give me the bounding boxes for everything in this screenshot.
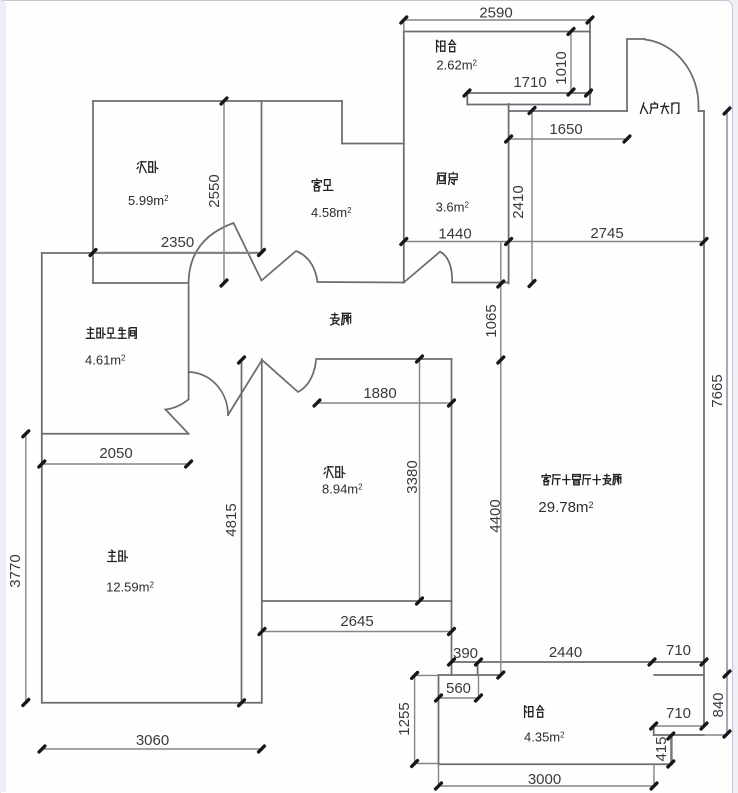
svg-text:1650: 1650: [549, 121, 582, 138]
entry door swing arc: [645, 40, 699, 107]
svg-text:560: 560: [446, 680, 471, 697]
extension for 2590 dim: [403, 20, 405, 32]
svg-text:2590: 2590: [479, 5, 512, 22]
dim 2350: [93, 252, 262, 254]
bedroom1 west wall: [92, 101, 94, 283]
bedroom2 east wall: [451, 359, 453, 675]
master bath east wall: [188, 285, 190, 399]
master bedroom door break: [166, 399, 189, 434]
dim 7665+840: [726, 111, 728, 734]
dim 2590: [404, 19, 590, 21]
extension to 840 dim: [704, 734, 727, 736]
dim 3380: [419, 359, 421, 601]
dim 2410: [531, 111, 533, 284]
dim 2550: [223, 101, 225, 283]
corridor north wall: [318, 281, 404, 284]
svg-text:840: 840: [710, 692, 727, 717]
dim 710 lower: [654, 725, 704, 727]
svg-text:390: 390: [453, 645, 478, 662]
master bedroom north wall: [42, 433, 189, 435]
extension for 1255 dim top: [415, 674, 439, 676]
kitchen south wall: [452, 282, 508, 284]
extension for 1255 dim bottom: [415, 763, 439, 765]
svg-text:1255: 1255: [396, 702, 413, 735]
south wall step: [477, 662, 479, 675]
bedroom1 south wall / master bath north wall: [42, 252, 262, 254]
svg-text:3.6m2: 3.6m2: [436, 200, 470, 215]
balcony window inner line: [468, 104, 589, 106]
north exterior wall (bedroom1 / guest bath): [93, 100, 342, 102]
svg-text:2350: 2350: [161, 234, 194, 251]
entry arc jamb stub: [698, 106, 700, 111]
balcony opening west wall: [439, 674, 501, 676]
svg-text:2440: 2440: [549, 644, 582, 661]
svg-text:29.78m2: 29.78m2: [538, 499, 593, 516]
bedroom2 south wall: [262, 600, 452, 602]
bedroom2 north wall: [316, 358, 452, 360]
dim 1255: [414, 675, 416, 763]
dim 1880: [317, 402, 452, 404]
svg-text:4815: 4815: [223, 503, 240, 536]
svg-text:5.99m2: 5.99m2: [128, 193, 169, 208]
kitchen east wall: [508, 104, 510, 284]
bedroom2 west wall: [261, 359, 263, 703]
north balcony / kitchen west wall: [403, 32, 405, 283]
entry north wall: [509, 110, 627, 112]
extension for 560 dim: [478, 676, 480, 700]
svg-text:4.35m2: 4.35m2: [524, 730, 565, 745]
svg-text:2410: 2410: [510, 185, 527, 218]
svg-text:2050: 2050: [99, 445, 132, 462]
north balcony east wall: [589, 20, 591, 105]
extension for 3000 dim right: [653, 764, 655, 788]
dim 1010: [570, 32, 572, 93]
svg-text:4400: 4400: [487, 499, 504, 532]
svg-text:1880: 1880: [363, 385, 396, 402]
master bedroom south wall: [42, 702, 262, 704]
guest bath top wall east part: [342, 143, 404, 145]
east exterior wall: [703, 111, 705, 726]
wall step at guest bath NE: [341, 101, 343, 144]
balcony window left end: [466, 93, 468, 105]
svg-text:3770: 3770: [7, 554, 24, 587]
svg-text:3060: 3060: [136, 732, 169, 749]
svg-text:4.58m2: 4.58m2: [311, 205, 352, 220]
entry door leaf stub: [627, 38, 645, 40]
entry corner step: [699, 110, 705, 112]
svg-text:12.59m2: 12.59m2: [106, 580, 154, 595]
north balcony top wall: [404, 31, 590, 33]
master bath door swing arc: [189, 372, 228, 415]
dim 415: [670, 736, 672, 764]
dim 2645: [262, 631, 452, 633]
south balcony east wall: [671, 735, 673, 764]
corridor north opening zigzag: [189, 223, 318, 283]
svg-text:1710: 1710: [513, 74, 546, 91]
south balcony west wall: [438, 675, 440, 764]
svg-text:2550: 2550: [206, 174, 223, 207]
svg-text:7665: 7665: [709, 374, 726, 407]
entry door jamb: [626, 39, 628, 111]
room labels: [137, 161, 158, 172]
svg-text:4.61m2: 4.61m2: [85, 353, 126, 368]
south balcony south wall: [439, 763, 672, 765]
dim 1065+4400: [500, 242, 502, 676]
svg-text:2745: 2745: [590, 225, 623, 242]
svg-text:3380: 3380: [404, 460, 421, 493]
bedroom1 east wall: [261, 101, 263, 253]
dim 1650: [509, 138, 627, 140]
dim 1440+2745: [404, 241, 704, 243]
kitchen door opening zigzag: [404, 252, 452, 283]
svg-text:710: 710: [666, 642, 691, 659]
west exterior wall: [41, 253, 43, 703]
svg-text:1440: 1440: [438, 226, 471, 243]
svg-text:3000: 3000: [528, 771, 561, 788]
balcony opening east wall: [654, 674, 704, 676]
svg-text:2.62m2: 2.62m2: [436, 58, 477, 73]
svg-text:8.94m2: 8.94m2: [322, 482, 363, 497]
balcony window outer line (1710 dim): [467, 92, 591, 94]
dim 560: [439, 697, 479, 699]
master bath inner north wall: [93, 282, 189, 284]
dim 2050: [42, 463, 189, 465]
svg-text:710: 710: [666, 705, 691, 722]
svg-text:2645: 2645: [340, 613, 373, 630]
svg-text:1010: 1010: [553, 51, 570, 84]
south balcony NE step: [653, 726, 655, 735]
corridor south opening zigzag: [228, 360, 316, 415]
dim 3000: [439, 785, 655, 787]
master bedroom east wall (4815 dim): [241, 360, 243, 703]
dim 3060: [42, 748, 262, 750]
dim 3770: [25, 434, 27, 703]
south balcony NE wall: [654, 734, 704, 736]
svg-text:415: 415: [653, 736, 670, 761]
living room south wall (390/2440/710 dim): [452, 661, 705, 663]
extension for 3000 dim left: [438, 764, 440, 788]
svg-text:1065: 1065: [483, 304, 500, 337]
